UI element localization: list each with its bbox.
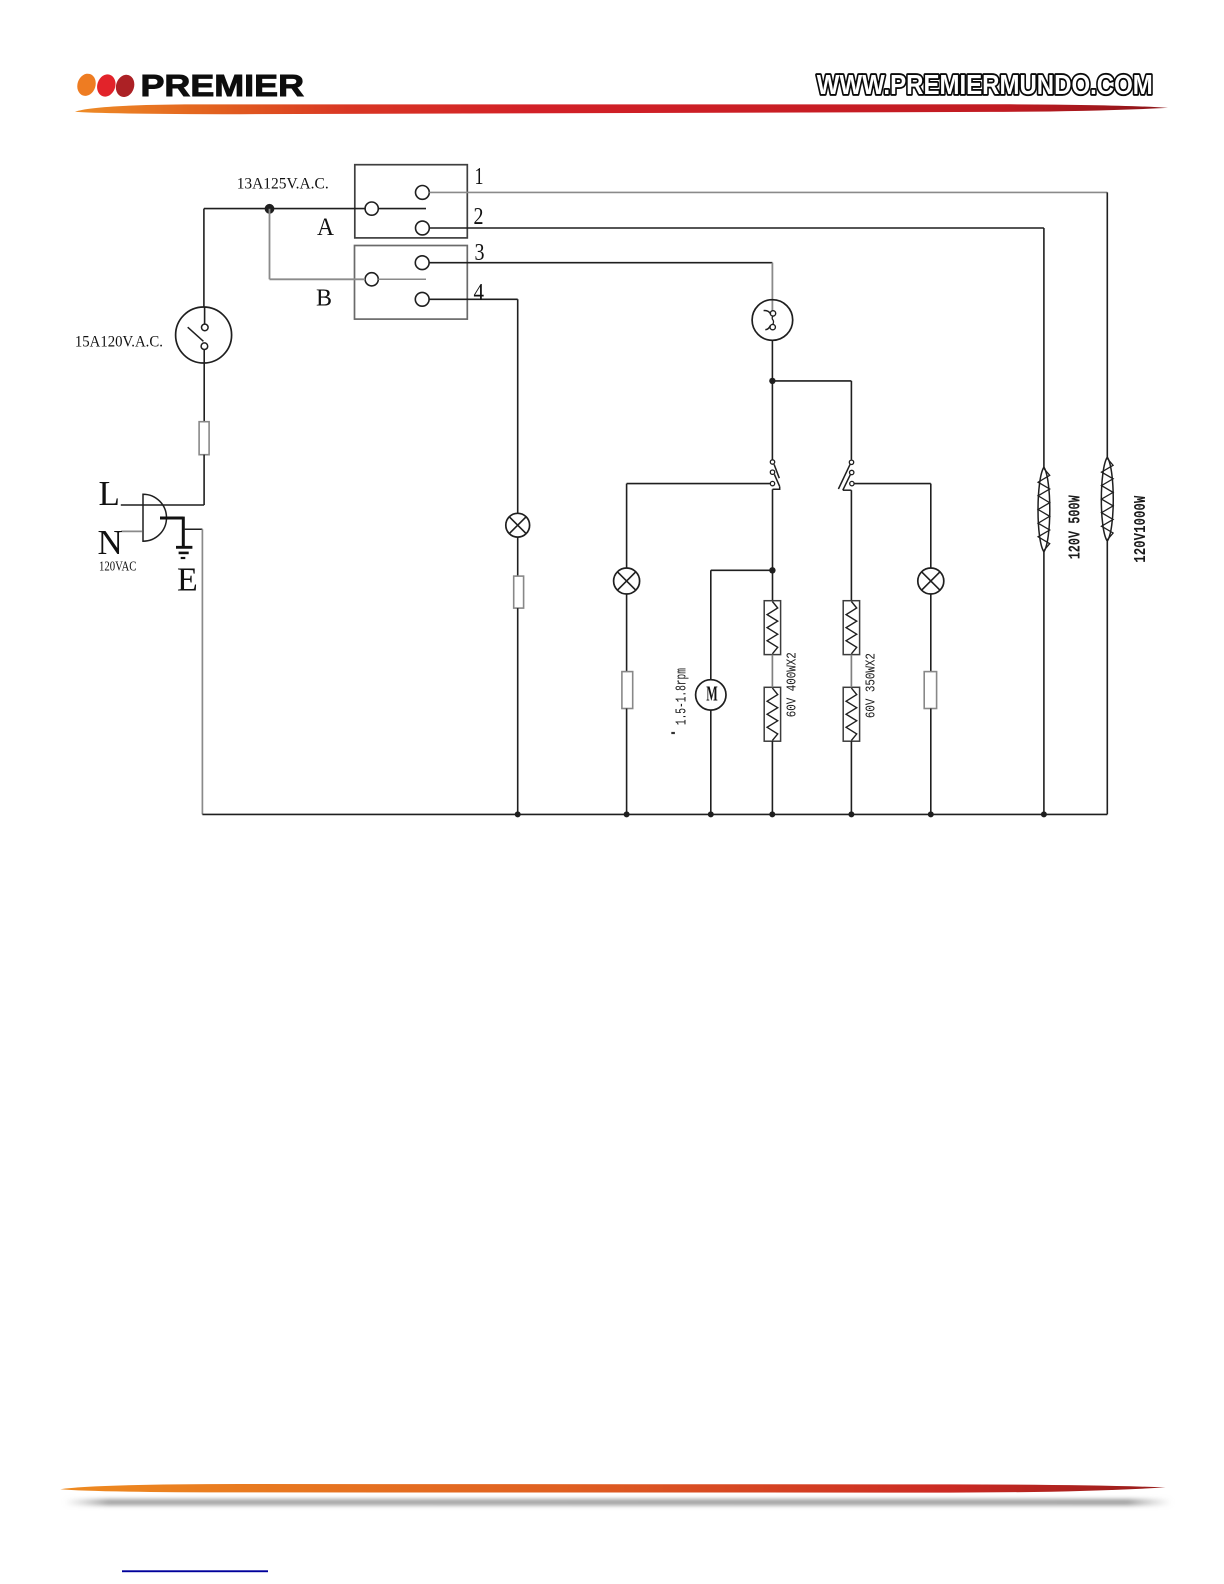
svg-text:60V 400WX2: 60V 400WX2 <box>786 652 801 717</box>
svg-text:13A125V.A.C.: 13A125V.A.C. <box>237 176 329 193</box>
svg-text:120VAC: 120VAC <box>99 560 137 575</box>
svg-text:15A120V.A.C.: 15A120V.A.C. <box>75 334 163 351</box>
svg-text:A: A <box>317 214 334 241</box>
svg-text:60V 350WX2: 60V 350WX2 <box>865 653 880 718</box>
svg-text:M: M <box>706 681 718 705</box>
svg-text:4: 4 <box>474 280 485 306</box>
svg-text:120V 500W: 120V 500W <box>1067 495 1086 560</box>
svg-text:3: 3 <box>475 240 485 266</box>
svg-text:PREMIER: PREMIER <box>141 69 305 103</box>
svg-text:L: L <box>99 474 120 513</box>
svg-text:B: B <box>316 285 332 311</box>
svg-text:120V1000W: 120V1000W <box>1132 495 1151 563</box>
svg-text:1: 1 <box>475 164 484 190</box>
svg-text:E: E <box>177 562 198 599</box>
svg-text:1.5-1.8rpm: 1.5-1.8rpm <box>675 668 691 725</box>
svg-text:WWW.PREMIERMUNDO.COM: WWW.PREMIERMUNDO.COM <box>817 69 1153 100</box>
svg-text:N: N <box>98 523 123 562</box>
svg-text:2: 2 <box>474 204 484 230</box>
